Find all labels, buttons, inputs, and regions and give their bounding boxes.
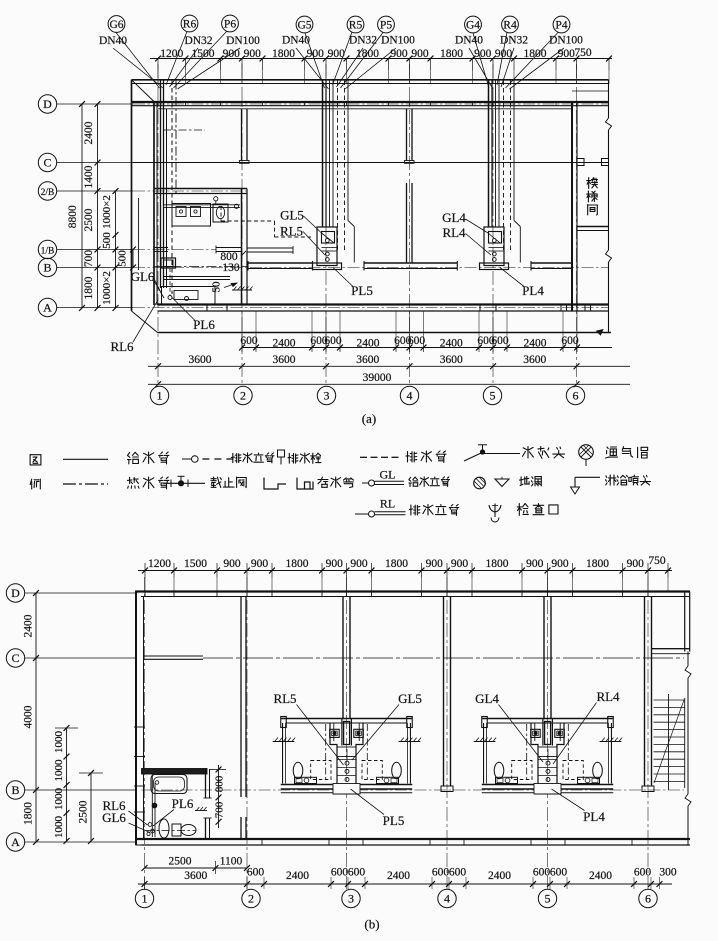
plan b: label RL4 with leader [553, 689, 620, 764]
svg-text:1: 1 [157, 389, 163, 403]
plan b: label GL5 with leader [352, 691, 422, 760]
svg-text:6: 6 [645, 892, 651, 906]
svg-text:DN100: DN100 [381, 35, 415, 47]
legend: supply pipe label [128, 452, 169, 464]
plan b: bathroom pair outer walls at grid 547.5 [482, 717, 614, 795]
plan a: floor drain cluster and piping at unit bathroom bottom [162, 268, 231, 305]
plan a: bottom grid circles 1-6 [150, 386, 584, 404]
svg-text:900: 900 [627, 558, 645, 570]
plan a: GL6 supply riser box [161, 258, 176, 268]
plan a: label PL5 with leader [333, 268, 373, 299]
svg-text:2500: 2500 [169, 856, 192, 868]
plan b: left dimension line storey heights [23, 590, 39, 845]
plan a: wall offset dimension 500 [117, 247, 136, 271]
svg-text:6: 6 [573, 389, 579, 403]
svg-text:1800: 1800 [524, 48, 547, 60]
svg-text:RL4: RL4 [442, 225, 466, 240]
plan b: washbasins at grid 547.5 [496, 777, 600, 783]
plan b: grid wall 5 upper [544, 597, 551, 719]
plan b: label PL4 with leader [552, 789, 606, 824]
svg-text:GL4: GL4 [442, 210, 466, 225]
plan b: label PL6 with leader [153, 796, 194, 826]
svg-text:1000×2: 1000×2 [101, 271, 113, 305]
svg-text:5: 5 [490, 389, 496, 403]
plan a: top dimension chain line with ticks [150, 56, 612, 84]
svg-text:G6: G6 [109, 19, 123, 31]
legend: drain pipe dashed symbol [360, 456, 399, 458]
plan b: shaft interior pipes at grid 346.5 [337, 747, 356, 782]
svg-text:39000: 39000 [363, 372, 392, 384]
svg-text:GL: GL [380, 468, 396, 482]
svg-text:900: 900 [526, 558, 544, 570]
plan b: shaft interior pipes at grid 547.5 [538, 747, 557, 782]
svg-text:1800: 1800 [272, 48, 295, 60]
legend: floor drain triangle symbol [495, 477, 509, 487]
plan a: label GL5 with leader [280, 208, 333, 243]
plan b: grid wall 3 upper [343, 597, 350, 719]
svg-text:1800: 1800 [83, 276, 95, 299]
svg-text:1000×2: 1000×2 [101, 195, 113, 229]
plan a: dimension 800 and 130 in unit bathroom [220, 251, 246, 274]
plan b: bottom dimension chain 2500 1100 [142, 856, 250, 875]
legend: shower head symbol [571, 477, 601, 494]
plan a: room rear wall line at row C [133, 162, 609, 164]
svg-text:1: 1 [142, 892, 148, 906]
legend: GL supply riser label [409, 477, 450, 487]
plan b: bathtub [151, 775, 187, 794]
svg-text:2400: 2400 [286, 870, 309, 882]
plan b: ground hatch symbols flanking cluster at grid 547.5 [474, 738, 622, 742]
plan b: label GL4 with leader [475, 691, 543, 762]
plan a: toilet in unit bathroom [213, 204, 228, 222]
plan a: water main stub at unit [163, 129, 205, 131]
svg-text:2: 2 [248, 892, 254, 906]
svg-text:900: 900 [326, 558, 344, 570]
svg-text:4: 4 [444, 892, 450, 906]
svg-text:GL5: GL5 [280, 208, 304, 223]
plan a: staircase room label loutijian [587, 178, 598, 215]
svg-text:PL6: PL6 [172, 796, 194, 811]
svg-text:RL5: RL5 [273, 691, 296, 706]
svg-text:2400: 2400 [357, 338, 380, 350]
legend: drain pipe label [406, 451, 446, 462]
plan a: unit bathroom wall row 2/B [154, 189, 247, 194]
svg-text:900: 900 [390, 48, 408, 60]
plan a: label RL6 with leader [110, 300, 158, 354]
plan b: corner unit risers and pipes [146, 775, 196, 838]
svg-text:PL4: PL4 [522, 283, 544, 298]
plan b: dimension 800 700 at corner unit [210, 765, 226, 828]
svg-text:D: D [43, 97, 52, 111]
svg-text:1500: 1500 [192, 48, 215, 60]
svg-text:1800: 1800 [286, 558, 309, 570]
plan a: plumbing shaft at grid 5 with pipe risers [480, 227, 509, 270]
svg-text:G5: G5 [297, 20, 311, 32]
svg-text:3600: 3600 [184, 870, 207, 882]
plan b: stair landing wall [652, 649, 691, 654]
plan a: left grid circles D C 2/B 1/B B A [38, 95, 56, 317]
plan b: bottom grid circles 1-6 [135, 889, 657, 907]
svg-text:DN40: DN40 [455, 35, 483, 47]
svg-text:750: 750 [648, 555, 666, 567]
svg-text:C: C [11, 651, 19, 665]
legend: drain stack label [231, 453, 274, 463]
plan a: bottom dimension overall 39000 [148, 372, 630, 387]
legend: stop valve label [211, 477, 246, 487]
plan a: label GL4 with leader [442, 210, 499, 243]
plan b: corner unit toilet [172, 824, 196, 836]
plan b: right exterior wall with break marks [685, 592, 691, 846]
plan a: top dimension numbers [160, 47, 592, 60]
plan b: grid wall 6 [642, 597, 654, 792]
plan a: left dimension line inner subdivisions [101, 188, 118, 311]
legend: water tap symbol [464, 445, 520, 461]
svg-text:G4: G4 [466, 20, 480, 32]
svg-text:800: 800 [214, 775, 226, 792]
plan a: bottom dimension chain 3600 bays [148, 354, 630, 369]
svg-text:PL4: PL4 [583, 809, 605, 824]
svg-text:1200: 1200 [148, 558, 171, 570]
svg-text:900: 900 [551, 558, 569, 570]
legend: trap label [318, 477, 354, 488]
svg-text:600: 600 [240, 335, 258, 347]
plan a: building outline eave lines with mitred corners [132, 80, 612, 335]
plan a: top pipe-riser grid circles G6 R6 P6 G5 R5 P5 G4 R4 P4 [108, 15, 570, 33]
plan b: ground hatch at corner unit [195, 807, 207, 811]
legend: drain spigot symbol [278, 450, 285, 465]
svg-text:600: 600 [324, 335, 342, 347]
plan a: DN pipe size labels [99, 35, 583, 48]
legend: floor drain circle symbol [474, 477, 486, 489]
svg-text:600: 600 [432, 867, 450, 879]
svg-text:900: 900 [558, 48, 576, 60]
legend: GL supply riser symbol [362, 468, 404, 487]
legend: trap symbol s-trap [297, 478, 313, 490]
legend: RL drain riser label [410, 505, 459, 516]
svg-text:5: 5 [545, 892, 551, 906]
plan b: corner unit bathroom walls [142, 769, 212, 840]
legend: inspection port symbol [489, 504, 501, 523]
plan b: shower stalls dashed at grid 346.5 [311, 761, 383, 780]
svg-text:1000: 1000 [53, 759, 65, 782]
svg-text:1800: 1800 [586, 558, 609, 570]
plan a: riser pipes along left wall of unit [161, 81, 177, 295]
svg-text:130: 130 [222, 262, 240, 274]
svg-text:2400: 2400 [524, 338, 547, 350]
plan a: label GL6 with leaders [131, 269, 164, 298]
plan b: left exterior wall [134, 592, 145, 846]
plan b: ground hatch symbols flanking cluster at grid 346.5 [273, 738, 421, 742]
legend: hot water label [128, 477, 169, 489]
svg-text:A: A [43, 300, 52, 314]
svg-text:3600: 3600 [523, 354, 546, 366]
svg-text:RL: RL [380, 497, 395, 511]
svg-text:900: 900 [474, 48, 492, 60]
svg-text:600: 600 [449, 867, 467, 879]
svg-text:DN32: DN32 [184, 35, 212, 47]
plan a: vertical grid axis lines 1-6 [158, 64, 577, 386]
plan b: bottom exterior wall row A [136, 839, 691, 845]
svg-text:50: 50 [211, 281, 223, 293]
legend: drain stack symbol line with circle [182, 456, 233, 463]
svg-text:B: B [11, 783, 19, 797]
svg-text:DN32: DN32 [500, 35, 528, 47]
svg-text:600: 600 [634, 867, 652, 879]
svg-text:600: 600 [550, 867, 568, 879]
svg-text:600: 600 [561, 335, 579, 347]
svg-text:(b): (b) [364, 917, 379, 932]
svg-text:B: B [43, 260, 51, 274]
plan b: corner unit pedestal washbasin [159, 819, 169, 838]
plan b: label RL5 with leader [273, 691, 343, 765]
legend: vent cap label [606, 447, 648, 458]
plan a: bathroom corridor wall row B segments [248, 261, 572, 271]
svg-text:3: 3 [348, 892, 354, 906]
plan a: label RL5 with leader [280, 224, 325, 256]
svg-text:RL4: RL4 [596, 689, 620, 704]
svg-text:600: 600 [331, 867, 349, 879]
svg-text:2400: 2400 [23, 614, 35, 637]
svg-text:D: D [11, 586, 20, 600]
svg-text:2400: 2400 [273, 338, 296, 350]
legend: supply pipe solid line symbol [63, 458, 108, 460]
svg-text:1800: 1800 [23, 802, 35, 825]
svg-text:2400: 2400 [589, 870, 612, 882]
svg-text:8800: 8800 [67, 205, 79, 228]
svg-text:900: 900 [244, 48, 262, 60]
svg-text:2500: 2500 [83, 208, 95, 231]
svg-text:2/B: 2/B [41, 188, 55, 198]
svg-text:900: 900 [426, 558, 444, 570]
svg-text:GL6: GL6 [102, 810, 126, 825]
svg-text:1/B: 1/B [41, 246, 55, 256]
svg-text:3600: 3600 [273, 354, 296, 366]
plan a: ground hatch symbol in unit [232, 287, 253, 291]
svg-text:600: 600 [408, 335, 426, 347]
plan b: row C partition wall segment [144, 655, 204, 657]
plan b: top exterior wall [135, 592, 690, 597]
plan a: top exterior wall [132, 91, 609, 109]
plan a: pipe chase and risers at grid 5 [489, 81, 521, 263]
plan a: left dimension line 8800 overall [67, 101, 85, 311]
svg-text:900: 900 [328, 48, 346, 60]
plan a: unit bathroom wall row 1/B [154, 246, 293, 255]
svg-text:PL5: PL5 [383, 813, 405, 828]
plan a: pipe chase and risers at grid 3 [323, 81, 355, 263]
svg-text:900: 900 [251, 558, 269, 570]
plan b: washbasins at grid 346.5 [295, 777, 399, 783]
legend: inspection port label [517, 504, 558, 516]
svg-text:1400: 1400 [83, 165, 95, 188]
plan a: stair room bottom wall [577, 227, 609, 231]
svg-text:500: 500 [101, 232, 113, 249]
svg-text:3600: 3600 [356, 354, 379, 366]
svg-text:2500: 2500 [78, 800, 90, 823]
plan a: unit bathroom wall grid 2 vertical [242, 189, 248, 305]
svg-text:1800: 1800 [486, 558, 509, 570]
svg-text:1200: 1200 [160, 48, 183, 60]
svg-text:600: 600 [247, 867, 265, 879]
plan b: top dimension chain with ticks [138, 563, 672, 592]
plan a: right exterior wall grid 6 [572, 102, 577, 311]
legend: hot water pipe dash-dot symbol [63, 483, 108, 485]
svg-text:900: 900 [411, 48, 429, 60]
plan b: left dimension line 1000 subdivisions [53, 725, 78, 844]
svg-text:900: 900 [223, 558, 241, 570]
plan b: left grid circles D C B A [6, 584, 24, 851]
plan b: label GL6 with leader [102, 810, 150, 833]
plan b: grid wall 2 [241, 597, 246, 840]
svg-text:900: 900 [451, 558, 469, 570]
svg-text:4: 4 [407, 389, 413, 403]
svg-text:GL5: GL5 [398, 691, 422, 706]
legend: vent cap symbol [579, 445, 594, 466]
svg-text:RL5: RL5 [280, 224, 303, 239]
svg-text:C: C [43, 155, 51, 169]
svg-text:3: 3 [324, 389, 330, 403]
plan b: central plumbing shaft funnel walls at grid 346.5 [326, 719, 368, 784]
plan a: bottom dimension chain 600 2400 600 [239, 311, 612, 352]
plan b: riser boxes with pipes at grid 547.5 [531, 729, 565, 737]
svg-text:R6: R6 [183, 19, 197, 31]
svg-text:A: A [11, 835, 20, 849]
svg-text:300: 300 [659, 867, 677, 879]
plan a: floor slope 50 annotation with arrow [211, 281, 238, 293]
svg-text:1000: 1000 [53, 816, 65, 839]
plan a: plumbing shaft at grid 3 with pipe risers [313, 227, 342, 270]
legend: trap symbol p-trap [264, 478, 286, 490]
plan a: stair door jambs [577, 159, 584, 166]
plan a: bottom corridor wall row A [158, 305, 609, 312]
plan a: grid line row B dash-dot inside unit [154, 266, 247, 268]
plan a: stair shaft outer wall with break marks [606, 80, 612, 333]
svg-text:PL5: PL5 [351, 283, 373, 298]
plan b: top dimension numbers [148, 555, 666, 570]
legend: floor drain label [520, 476, 542, 486]
svg-text:P6: P6 [224, 19, 236, 31]
plan a: label PL4 with leader [500, 268, 544, 299]
plan a: water supply pipes in unit bathroom with stop valves [163, 197, 240, 209]
svg-text:P5: P5 [380, 20, 392, 32]
svg-text:GL6: GL6 [131, 269, 155, 284]
plan a: horizontal grid lines to building [57, 104, 609, 308]
svg-text:1800: 1800 [385, 558, 408, 570]
plan b: toilets at grid 346.5 [293, 762, 401, 778]
plan b: shower stalls dashed at grid 547.5 [512, 761, 584, 780]
svg-text:3600: 3600 [189, 354, 212, 366]
svg-text:1000: 1000 [53, 788, 65, 811]
plan b: bottom dimension chain bays [138, 867, 677, 890]
svg-text:600: 600 [533, 867, 551, 879]
plan b: label PL5 with leader [351, 789, 405, 828]
svg-text:900: 900 [350, 558, 368, 570]
legend: tu li header [30, 455, 41, 489]
svg-text:3600: 3600 [440, 354, 463, 366]
plan b: bathroom pair outer walls at grid 346.5 [281, 717, 413, 795]
plan a: washbasin counter in unit bathroom [172, 204, 211, 227]
svg-text:500: 500 [117, 250, 129, 267]
svg-text:PL6: PL6 [193, 317, 215, 332]
svg-text:900: 900 [495, 48, 513, 60]
plan a: left dimension line storey segments [83, 101, 100, 311]
plan a: leader lines from riser labels to pipe chases [113, 31, 564, 89]
plan a: interior partition grid 4 [405, 109, 415, 263]
legend: shower head label [606, 475, 651, 485]
svg-text:900: 900 [307, 48, 325, 60]
svg-text:GL4: GL4 [475, 691, 499, 706]
plan a: label RL4 with leader [442, 225, 491, 255]
svg-text:P4: P4 [555, 20, 567, 32]
plan b: grid wall 4 [441, 597, 453, 792]
svg-text:700: 700 [214, 801, 226, 818]
svg-text:2400: 2400 [440, 338, 463, 350]
svg-text:600: 600 [348, 867, 366, 879]
svg-text:4000: 4000 [23, 705, 35, 728]
plan a: interior partition grid 2 [240, 109, 250, 164]
svg-text:2400: 2400 [387, 870, 410, 882]
svg-text:1800: 1800 [356, 48, 379, 60]
svg-text:2400: 2400 [83, 121, 95, 144]
plan a: label PL6 with leader [172, 298, 215, 333]
legend: RL drain riser symbol [355, 497, 406, 518]
svg-text:900: 900 [223, 48, 241, 60]
plan b: toilets at grid 547.5 [494, 762, 602, 778]
plan b: label RL6 with leader [102, 798, 147, 825]
svg-text:DN32: DN32 [349, 35, 377, 47]
plan b: riser boxes with pipes at grid 346.5 [330, 729, 364, 737]
svg-text:750: 750 [574, 47, 592, 59]
plan a: drain pipe dashed run in unit bathroom [221, 206, 311, 237]
svg-text:DN100: DN100 [226, 35, 260, 47]
svg-text:1000: 1000 [53, 731, 65, 754]
svg-text:700: 700 [83, 250, 95, 268]
svg-text:1100: 1100 [220, 856, 243, 868]
svg-text:1800: 1800 [440, 48, 463, 60]
plan b: left dimension 2500 bathroom [78, 770, 104, 844]
legend: stop valve symbol [163, 476, 205, 487]
svg-text:R4: R4 [503, 20, 517, 32]
plan b: staircase treads [654, 694, 685, 790]
svg-text:1500: 1500 [184, 558, 207, 570]
legend: water tap label [523, 447, 565, 459]
svg-text:(a): (a) [362, 411, 376, 426]
svg-text:2400: 2400 [488, 870, 511, 882]
plan b: vertical grid axis lines 1-6 [145, 577, 649, 889]
svg-text:2: 2 [240, 389, 246, 403]
svg-text:R5: R5 [349, 20, 363, 32]
legend: drain spigot label [288, 453, 321, 463]
svg-text:600: 600 [491, 335, 509, 347]
svg-text:RL6: RL6 [110, 339, 134, 354]
plan b: horizontal grid lines [25, 593, 684, 842]
plan a: left exterior wall with window [154, 102, 157, 305]
plan b: central plumbing shaft funnel walls at grid 547.5 [527, 719, 569, 784]
